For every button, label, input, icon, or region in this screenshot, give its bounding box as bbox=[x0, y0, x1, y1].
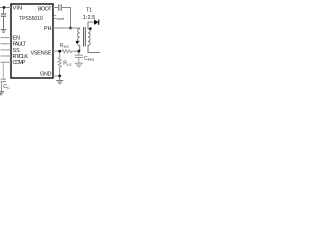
resistor RLS bbox=[59, 52, 61, 57]
svg-text:C: C bbox=[7, 86, 10, 90]
wire SS bbox=[1, 49, 12, 51]
wire VSENSE bbox=[53, 50, 62, 52]
node primary polarity dot bbox=[76, 41, 79, 44]
node CBOOT/PH junction bbox=[69, 27, 72, 30]
svg-text:HS: HS bbox=[64, 45, 70, 49]
svg-text:RT/CLK: RT/CLK bbox=[13, 54, 29, 60]
wire GND bbox=[53, 75, 60, 77]
wire COMP bbox=[1, 61, 12, 63]
svg-text:COMP: COMP bbox=[13, 60, 26, 66]
ground (comp cap) bbox=[0, 92, 4, 95]
svg-text:PH: PH bbox=[44, 26, 52, 32]
transformer T1 core bbox=[83, 27, 85, 47]
svg-text:FAULT: FAULT bbox=[13, 42, 27, 48]
ground (IC gnd) bbox=[56, 76, 63, 84]
node VSENSE junction bbox=[58, 50, 61, 53]
capacitor CBOOT bbox=[59, 4, 61, 10]
capacitor CIN bbox=[1, 8, 6, 30]
wire VIN input bbox=[0, 7, 11, 9]
transformer T1 primary winding bbox=[78, 28, 80, 51]
svg-text:VSENSE: VSENSE bbox=[31, 51, 52, 57]
node secondary polarity dot bbox=[89, 27, 92, 30]
ground (input cap) bbox=[1, 30, 6, 33]
svg-text:SS: SS bbox=[13, 48, 21, 54]
transformer T1 secondary winding bbox=[88, 22, 100, 53]
svg-text:VIN: VIN bbox=[13, 6, 23, 12]
wire BOOT bbox=[53, 7, 58, 9]
svg-text:boot: boot bbox=[57, 17, 65, 21]
wire RT/CLK bbox=[1, 55, 12, 57]
capacitor CC bbox=[1, 79, 6, 91]
node GND junction bbox=[58, 75, 61, 78]
wire COMP down branch bbox=[2, 62, 4, 79]
svg-text:TPS55010: TPS55010 bbox=[19, 16, 43, 22]
svg-text:EN: EN bbox=[13, 36, 21, 42]
resistor RHS bbox=[62, 50, 73, 53]
wire FAULT bbox=[1, 43, 12, 45]
node primary output junction bbox=[77, 50, 80, 53]
svg-text:PRI: PRI bbox=[88, 57, 95, 62]
svg-text:BOOT: BOOT bbox=[38, 6, 52, 12]
wire PH bbox=[53, 27, 80, 29]
svg-text:T1: T1 bbox=[86, 8, 92, 14]
ground (primary cap) bbox=[75, 63, 83, 67]
diode D1 bbox=[94, 20, 99, 25]
node VIN junction bbox=[3, 6, 6, 9]
svg-text:1:2.5: 1:2.5 bbox=[83, 15, 95, 21]
capacitor CPRI bbox=[75, 51, 83, 63]
wire BOOT to PH corner bbox=[61, 8, 70, 29]
svg-text:GND: GND bbox=[40, 72, 52, 78]
svg-text:LS: LS bbox=[67, 63, 72, 67]
wire EN bbox=[1, 37, 12, 39]
op-amp U1 TPS55010 IC body bbox=[11, 4, 53, 78]
wire secondary to diode bbox=[88, 21, 94, 23]
